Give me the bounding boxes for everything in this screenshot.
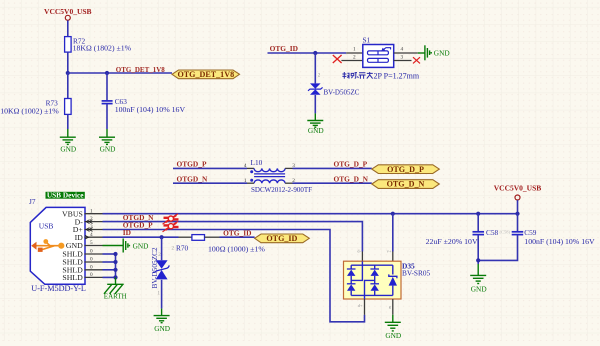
port OTG_DET_1V8 — [172, 70, 240, 79]
wire ID to R70 — [103, 236, 179, 238]
wire VBUS to D35 — [392, 214, 394, 252]
zener D35-5 — [389, 274, 397, 285]
diode D35-4 — [370, 284, 379, 291]
D35 internal wires — [351, 261, 393, 299]
junction C58 tap — [476, 212, 480, 216]
diode array D35 body — [344, 261, 431, 299]
wire junction to TVS BV-D505ZC — [314, 53, 316, 83]
svg-text:2P P=1.27mm: 2P P=1.27mm — [374, 72, 420, 81]
junction VCC corner — [515, 212, 519, 216]
ground GND under D35 — [385, 315, 401, 331]
pin GND (5) — [66, 240, 103, 250]
svg-text:BV-D505ZC2: BV-D505ZC2 — [150, 247, 159, 288]
pin 1 of S1 — [346, 52, 363, 54]
pin 2 of R70 — [179, 236, 192, 238]
earth symbol EARTH — [104, 277, 124, 293]
wire C59 top — [517, 214, 519, 232]
junction TVS tap — [313, 51, 317, 55]
svg-text:C58: C58 — [486, 228, 499, 237]
svg-text:GND: GND — [60, 145, 76, 154]
junction TVS2 tap — [160, 235, 164, 239]
no-connect X on pin 2 — [333, 55, 342, 63]
svg-text:d+: d+ — [358, 303, 363, 308]
label 拨码开关 2P P=1.27mm — [342, 72, 372, 79]
diode D35-2 — [347, 284, 356, 291]
junction SHLD row7 — [113, 260, 117, 264]
svg-text:USB Device: USB Device — [47, 191, 84, 200]
svg-text:ID: ID — [123, 228, 131, 237]
wire C63 to GND — [106, 104, 108, 129]
svg-text:100nF (104) 10% 16V: 100nF (104) 10% 16V — [524, 237, 595, 246]
wire C63 — [106, 73, 108, 100]
svg-text:4: 4 — [244, 163, 247, 169]
svg-text:GND: GND — [154, 324, 170, 333]
svg-text:SHLD: SHLD — [62, 273, 83, 282]
wire TVS2 to GND — [161, 280, 163, 309]
wire OTGD_P to L10 pin4 — [173, 167, 247, 169]
wire R72 to node — [67, 52, 69, 73]
wire node to port OTG_DET_1V8 — [68, 72, 172, 74]
svg-text:100nF (104) 10% 16V: 100nF (104) 10% 16V — [115, 105, 186, 114]
svg-text:2: 2 — [353, 54, 356, 60]
svg-text:OTG_D_N: OTG_D_N — [387, 180, 425, 189]
connector J7 body — [30, 207, 85, 284]
junction D35 VBUS tap — [391, 212, 395, 216]
svg-text:3: 3 — [401, 54, 404, 60]
TVS diode BV-D505ZC — [308, 83, 360, 96]
svg-text:1: 1 — [353, 47, 356, 53]
svg-text:EARTH: EARTH — [104, 293, 127, 301]
no-ERC marker on OTGD_N — [163, 214, 179, 224]
pin 4 of L10 — [247, 167, 254, 169]
junction SHLD row9 — [113, 275, 117, 279]
svg-text:OTGD_N: OTGD_N — [177, 174, 208, 183]
no-ERC marker on OTGD_P — [163, 221, 179, 231]
diode D35-1 — [347, 269, 356, 276]
pin SHLD (0) row9 — [62, 272, 102, 282]
ground GND under C63 — [99, 129, 115, 144]
pin ID (4) — [75, 232, 103, 242]
pin d+ of D35 — [364, 299, 366, 315]
resistor R73 — [0, 98, 71, 115]
svg-text:GND: GND — [100, 145, 116, 154]
svg-text:OTG_DET_1V8: OTG_DET_1V8 — [177, 70, 234, 79]
svg-text:4: 4 — [401, 47, 404, 53]
svg-text:OTG_D_P: OTG_D_P — [334, 160, 368, 169]
capacitor C58 — [426, 228, 511, 246]
ground GND under R73 — [60, 129, 76, 144]
svg-text:d-: d- — [357, 249, 361, 254]
no-connect X on pin 3 — [413, 57, 420, 63]
pin 1 of L10 — [247, 182, 254, 184]
pin VBUS (1) — [62, 208, 103, 218]
pin vcc of D35 — [392, 252, 394, 262]
wire VBUS rail — [103, 213, 518, 215]
port OTG_ID — [255, 234, 310, 243]
svg-text:R70: R70 — [176, 243, 189, 252]
wire C58 top — [477, 214, 479, 232]
svg-text:C59: C59 — [524, 228, 537, 237]
USB icon — [31, 239, 64, 252]
svg-text:J7: J7 — [29, 197, 36, 206]
svg-text:OTG_ID: OTG_ID — [266, 234, 297, 243]
svg-text:GND: GND — [471, 284, 487, 293]
svg-text:OTG_D_P: OTG_D_P — [387, 165, 424, 174]
junction SHLD row6 — [113, 252, 117, 256]
wire TVS to GND — [314, 95, 316, 113]
svg-text:VCC5V0_USB: VCC5V0_USB — [494, 184, 542, 193]
junction C63 tap — [105, 71, 109, 75]
switch S1 — [363, 35, 394, 67]
power port VCC5V0_USB top-left — [44, 7, 92, 20]
wire L10 pin3 to port OTG_D_P — [293, 167, 372, 169]
svg-text:GND: GND — [385, 331, 401, 340]
svg-text:U-F-M5DD-Y-L: U-F-M5DD-Y-L — [31, 284, 86, 293]
resistor R72 — [65, 36, 132, 52]
pin 3 of L10 — [285, 167, 292, 169]
wire VCC5V0_USB to R72 — [67, 20, 69, 36]
ground GND under TVS2 — [154, 309, 170, 323]
svg-text:10KΩ (1002) ±1%: 10KΩ (1002) ±1% — [0, 107, 59, 116]
wire node to R73 — [67, 73, 69, 99]
svg-text:L10: L10 — [251, 158, 263, 167]
capacitor C59 — [512, 228, 595, 246]
svg-text:GND: GND — [434, 49, 450, 58]
wire C58 bottom — [477, 235, 479, 264]
port OTG_D_N — [372, 180, 440, 189]
pin gnd of D35 — [392, 299, 394, 315]
svg-text:1: 1 — [244, 178, 247, 184]
pin D- (2) — [75, 216, 103, 226]
pin SHLD (0) row6 — [62, 249, 102, 259]
wire OTGD_N to D35 — [103, 222, 363, 252]
svg-text:18KΩ (1802) ±1%: 18KΩ (1802) ±1% — [73, 44, 132, 53]
junction SHLD row8 — [113, 268, 117, 272]
wire R73 to GND — [67, 114, 69, 129]
pin 3 of S1 — [394, 60, 412, 62]
wire VCC to rail — [517, 200, 519, 214]
capacitor C63 — [102, 97, 186, 114]
resistor R70 — [172, 235, 266, 254]
diode D35-3 — [370, 269, 379, 276]
ground GND under C58 — [470, 264, 486, 284]
wire OTGD_P to D35 — [103, 230, 365, 322]
svg-text:v+: v+ — [387, 249, 392, 254]
wire OTGD_N to L10 pin1 — [173, 182, 247, 184]
wire TVS2 from junction — [161, 237, 163, 260]
svg-text:22uF ±20% 10V: 22uF ±20% 10V — [426, 237, 478, 246]
ground GND at pin5 (sideways) — [103, 239, 130, 253]
wire SHLD bus — [103, 254, 116, 277]
svg-text:SDCW2012-2-900TF: SDCW2012-2-900TF — [251, 186, 312, 194]
pin 1 of R70 — [205, 236, 220, 238]
wire C59 bottom to C58 — [478, 235, 517, 260]
power port VCC5V0_USB right — [494, 184, 542, 200]
pin d- of D35 — [361, 252, 363, 262]
svg-text:(C58): (C58) — [500, 229, 511, 234]
pin 2 of L10 — [285, 182, 292, 184]
port OTG_D_P — [372, 165, 440, 174]
svg-text:GND: GND — [308, 126, 324, 135]
svg-text:OTG_DET_1V8: OTG_DET_1V8 — [116, 66, 166, 74]
svg-text:USB: USB — [39, 222, 54, 231]
TVS diode BV-D505ZC2 — [150, 247, 169, 288]
pin SHLD (0) row7 — [62, 257, 102, 267]
svg-text:OTGD_P: OTGD_P — [177, 160, 207, 169]
svg-text:100Ω (1000) ±1%: 100Ω (1000) ±1% — [208, 245, 265, 254]
svg-text:S1: S1 — [363, 35, 371, 44]
pin SHLD (0) row8 — [62, 264, 102, 274]
pin 2 of S1 — [341, 60, 362, 62]
svg-text:OTG_D_N: OTG_D_N — [334, 174, 369, 183]
ground GND right of S1 (sideways) — [418, 45, 431, 60]
wire OTG_ID to S1 — [268, 52, 347, 54]
node OTG_DET_1V8 junction — [66, 71, 70, 75]
junction C58/C59 bottom — [476, 258, 480, 262]
svg-text:OTG_ID: OTG_ID — [270, 44, 298, 53]
svg-text:OTG_ID: OTG_ID — [223, 228, 251, 237]
ground GND under TVS — [307, 113, 323, 127]
wire R70 to port OTG_ID — [220, 236, 255, 238]
pin D+ (3) — [73, 224, 103, 234]
svg-text:GND: GND — [133, 241, 149, 250]
svg-text:BV-D505ZC: BV-D505ZC — [324, 88, 360, 96]
header USB Device — [46, 191, 85, 200]
pin 4 of S1 — [394, 52, 418, 54]
inductor L10 common-mode choke — [250, 158, 312, 194]
wire L10 pin2 to port OTG_D_N — [293, 182, 372, 184]
svg-text:BV-SR05: BV-SR05 — [402, 269, 430, 278]
